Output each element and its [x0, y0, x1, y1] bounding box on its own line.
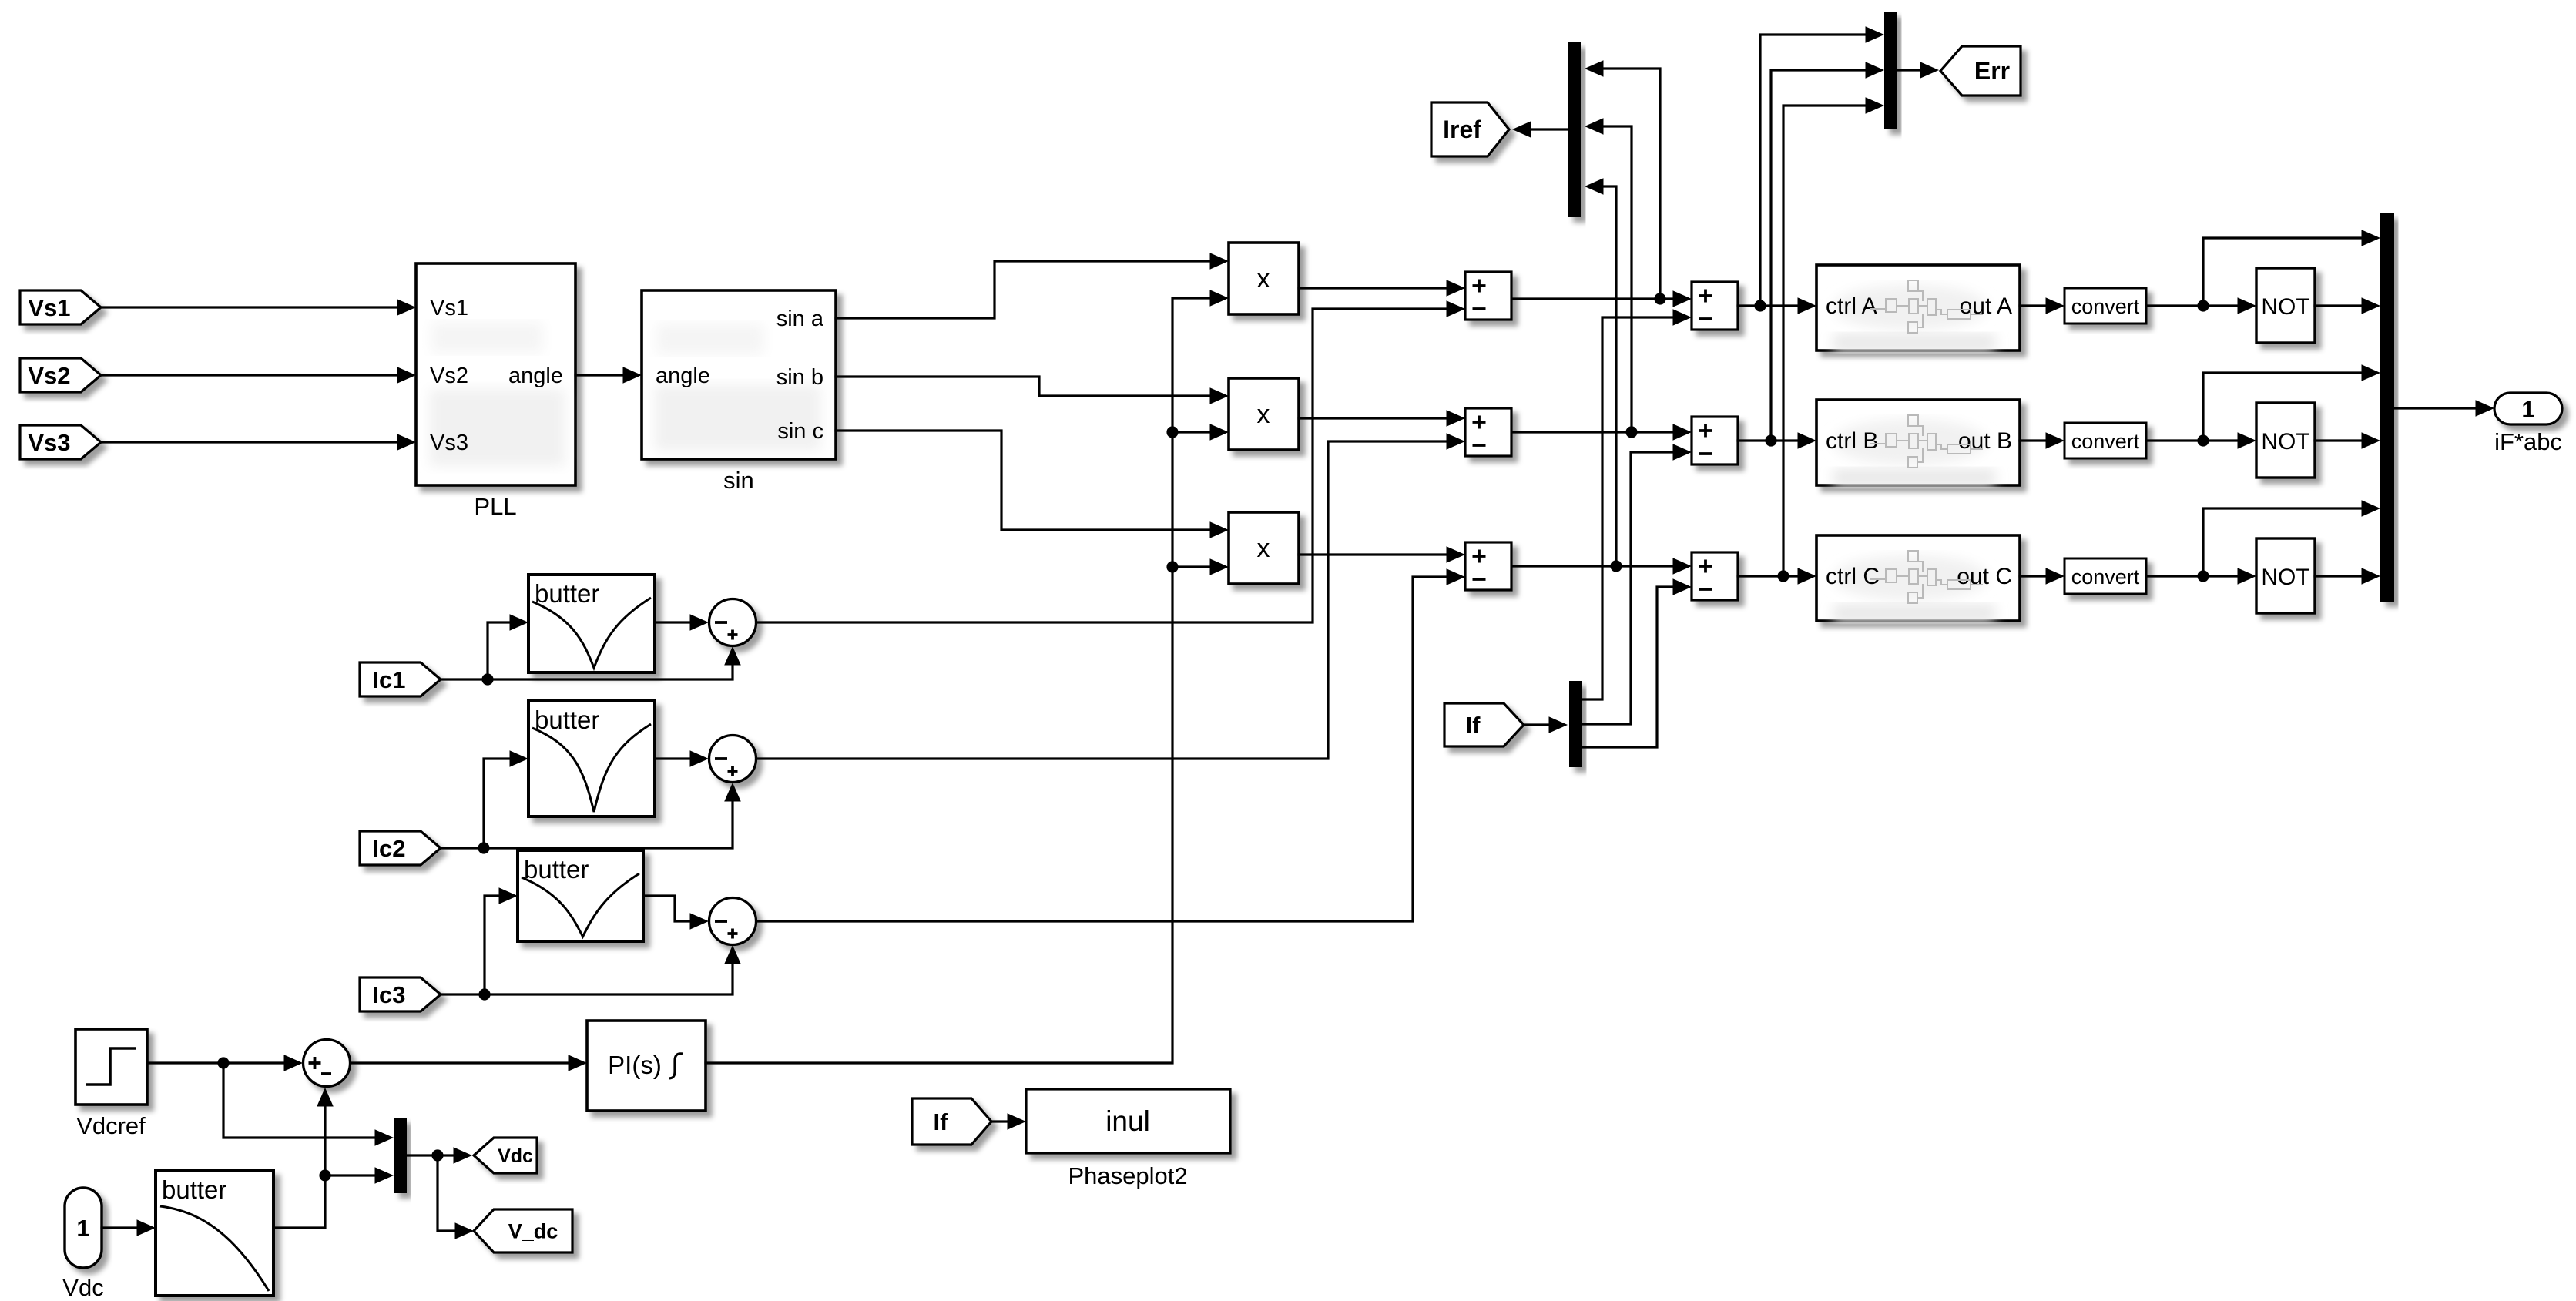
svg-text:Ic2: Ic2 [372, 835, 405, 862]
svg-text:Vs3: Vs3 [28, 429, 70, 456]
svg-text:out C: out C [1957, 564, 2012, 589]
svg-text:NOT: NOT [2261, 429, 2309, 454]
sum block sum1A [1465, 272, 1511, 320]
wire butter3 to sum circle 3 [643, 896, 692, 921]
svg-text:Vdc: Vdc [498, 1145, 533, 1167]
wire sin c to product C [836, 431, 1212, 530]
svg-text:ctrl B: ctrl B [1826, 428, 1878, 454]
svg-text:x: x [1257, 534, 1270, 563]
wire sum circle 4 to PI block [351, 1061, 570, 1064]
wire ctrl C to convert C [2020, 575, 2048, 577]
wire Vdc inport to butter4 [102, 1226, 139, 1229]
wire mux to Err tag [1897, 69, 1922, 71]
svg-text:butter: butter [535, 579, 599, 608]
svg-text:angle: angle [656, 364, 710, 388]
from tag If [1444, 703, 1524, 746]
wire sum2C output to ctrl C with branch to Err mux [1738, 575, 1800, 577]
sum block sum2A [1692, 282, 1738, 330]
data type conversion block convert B [2064, 423, 2146, 458]
wire product B to sum1B [1299, 417, 1448, 419]
svg-text:If: If [933, 1108, 948, 1135]
subsystem block ctrl B [1816, 400, 2020, 487]
input port Vs2 [20, 358, 101, 392]
wire sum1C output to sum2C with branch to Iref mux [1513, 565, 1675, 567]
wire butter2 to sum circle 2 [655, 757, 692, 759]
svg-text:Vs1: Vs1 [28, 294, 70, 321]
wire sin b to product B [836, 377, 1212, 396]
sum block sum2C [1692, 552, 1738, 600]
butterworth filter block butter 3 [518, 850, 643, 941]
wire Vs2 to PLL [101, 374, 399, 376]
wire butter1 to sum circle 1 [655, 621, 692, 623]
sum circle 1 [709, 599, 756, 646]
wire demux out3 to sum2C minus [1582, 587, 1675, 747]
butterworth lowpass block butter 4 [156, 1171, 273, 1296]
output port 1 iF*abc [2494, 393, 2562, 455]
input port Vs3 [20, 425, 101, 459]
svg-text:sin a: sin a [776, 307, 824, 331]
product block x phase A [1229, 243, 1299, 314]
wire PI branch to product C [1172, 565, 1212, 568]
wire convert B to NOT B with branch to output mux [2146, 439, 2239, 441]
svg-text:butter: butter [162, 1175, 226, 1204]
product block x phase C [1229, 512, 1299, 584]
sum block sum1C [1465, 542, 1511, 590]
wire PLL angle to sin [575, 374, 625, 376]
svg-text:Vs3: Vs3 [430, 431, 468, 455]
subsystem block ctrl A [1816, 265, 2020, 352]
wire sum circle 3 to sum1C minus [756, 577, 1448, 921]
wire sum circle 2 to sum1B minus [756, 441, 1448, 759]
input port Ic1 [360, 662, 441, 696]
wire Vdcref to sum circle 4 and to Vdc mux [147, 1061, 285, 1064]
svg-text:PI(s): PI(s) [608, 1051, 662, 1079]
input port Ic3 [360, 977, 441, 1011]
scope block inul / Phaseplot2 [1026, 1089, 1230, 1189]
svg-text:PLL: PLL [474, 493, 516, 520]
wire Vs1 to PLL [101, 306, 399, 308]
sum block sum2B [1692, 417, 1738, 464]
svg-text:out A: out A [1960, 293, 2012, 319]
svg-text:sin c: sin c [777, 419, 823, 444]
wire If to inul [991, 1120, 1009, 1122]
logical operator block NOT B [2256, 403, 2315, 478]
wire Ic2 to butter2 and sum circle 2 [440, 800, 733, 848]
wire NOT B to output mux [2315, 439, 2363, 441]
wire butter4 to sum circle 4 and Vdc mux [273, 1107, 325, 1228]
wire sum2B output to ctrl B with branch to Err mux [1738, 439, 1800, 441]
mux for Iref [1568, 42, 1581, 217]
wire convert C to NOT C with branch to output mux [2146, 575, 2239, 577]
PID controller block PI(s) [587, 1021, 706, 1111]
svg-text:Vdcref: Vdcref [76, 1112, 146, 1139]
from tag If (bottom) [912, 1098, 991, 1145]
svg-text:Ic1: Ic1 [372, 666, 405, 693]
data type conversion block convert C [2064, 558, 2146, 594]
sum circle 3 [709, 898, 756, 945]
wire Ic1 to butter1 and sum circle 1 [440, 664, 733, 679]
svg-text:inul: inul [1105, 1105, 1150, 1137]
wire convert A to NOT A with branch to output mux [2146, 304, 2239, 307]
sum circle 2 [709, 736, 756, 783]
step block Vdcref [75, 1029, 147, 1139]
svg-text:butter: butter [535, 706, 599, 734]
logical operator block NOT C [2256, 538, 2315, 613]
svg-text:ctrl A: ctrl A [1826, 293, 1877, 319]
wire sum circle 1 to sum1A minus [756, 309, 1448, 622]
butterworth filter block butter 1 [528, 575, 655, 672]
wire ctrl B to convert B [2020, 439, 2048, 441]
svg-text:x: x [1257, 264, 1270, 293]
input port Vdc (round inport 1) [62, 1188, 103, 1301]
svg-text:sin: sin [723, 467, 754, 494]
svg-text:NOT: NOT [2261, 565, 2309, 590]
product block x phase B [1229, 378, 1299, 450]
svg-text:V_dc: V_dc [508, 1220, 558, 1243]
output mux [2380, 213, 2394, 602]
wire sum1A output to sum2A with branch to Iref mux [1513, 297, 1675, 300]
svg-text:NOT: NOT [2261, 294, 2309, 320]
wire demux out2 to sum2B minus [1582, 452, 1675, 724]
svg-text:Err: Err [1974, 57, 2010, 85]
mux for Vdc [394, 1118, 407, 1193]
wire product A to sum1A [1299, 287, 1448, 289]
subsystem block sin [642, 290, 836, 494]
svg-text:convert: convert [2071, 295, 2140, 318]
svg-text:x: x [1257, 400, 1270, 429]
wire ctrl A to convert A [2020, 304, 2048, 307]
goto tag Err [1940, 46, 2021, 96]
goto tag Iref [1431, 102, 1509, 156]
wire mux to outport [2394, 407, 2476, 409]
subsystem block ctrl C [1816, 535, 2020, 622]
svg-text:Ic3: Ic3 [372, 981, 405, 1008]
svg-text:angle: angle [508, 364, 563, 388]
svg-text:butter: butter [524, 855, 589, 884]
wire Ic3 to butter3 and sum circle 3 [440, 963, 733, 994]
input port Ic2 [360, 831, 441, 865]
sum block sum1B [1465, 408, 1511, 456]
logical operator block NOT A [2256, 268, 2315, 343]
wire sum2A output to ctrl A with branch to Err mux [1738, 304, 1800, 307]
subsystem block PLL [416, 263, 575, 520]
wire Vdc mux to Vdc tag and V_dc tag [407, 1154, 455, 1156]
svg-text:Vdc: Vdc [62, 1274, 103, 1301]
svg-text:convert: convert [2071, 565, 2140, 588]
svg-text:Vs2: Vs2 [430, 364, 468, 388]
wire PI branch to product B [1172, 431, 1212, 433]
sum circle 4 [304, 1040, 351, 1087]
wire demux out1 to sum2A minus [1582, 317, 1675, 699]
demux for If [1569, 681, 1582, 767]
svg-text:1: 1 [76, 1215, 89, 1242]
wire If tag to demux [1524, 723, 1551, 726]
svg-text:iF*abc: iF*abc [2494, 428, 2562, 455]
svg-text:Vs2: Vs2 [28, 362, 70, 389]
svg-text:If: If [1465, 712, 1481, 739]
goto tag Vdc [474, 1138, 537, 1173]
svg-text:sin b: sin b [776, 365, 823, 390]
goto tag V_dc [474, 1209, 572, 1252]
wire mux to Iref tag [1530, 128, 1568, 130]
wire sin a to product A [836, 261, 1212, 318]
svg-text:Phaseplot2: Phaseplot2 [1068, 1162, 1187, 1189]
wire NOT C to output mux [2315, 575, 2363, 577]
svg-text:1: 1 [2521, 396, 2534, 423]
svg-text:out B: out B [1958, 428, 2012, 454]
mux for Err [1884, 12, 1897, 129]
svg-text:ctrl C: ctrl C [1826, 564, 1880, 589]
svg-text:Iref: Iref [1443, 116, 1481, 143]
wire PI output to products (reference amplitude) [706, 298, 1212, 1063]
wire product C to sum1C [1299, 553, 1448, 555]
svg-text:convert: convert [2071, 430, 2140, 453]
butterworth filter block butter 2 [528, 701, 655, 816]
input port Vs1 [20, 290, 101, 324]
wire sum1B output to sum2B with branch to Iref mux [1513, 431, 1675, 433]
svg-text:Vs1: Vs1 [430, 296, 468, 320]
wire Vs3 to PLL [101, 441, 399, 443]
wire NOT A to output mux [2315, 304, 2363, 307]
data type conversion block convert A [2064, 288, 2146, 324]
